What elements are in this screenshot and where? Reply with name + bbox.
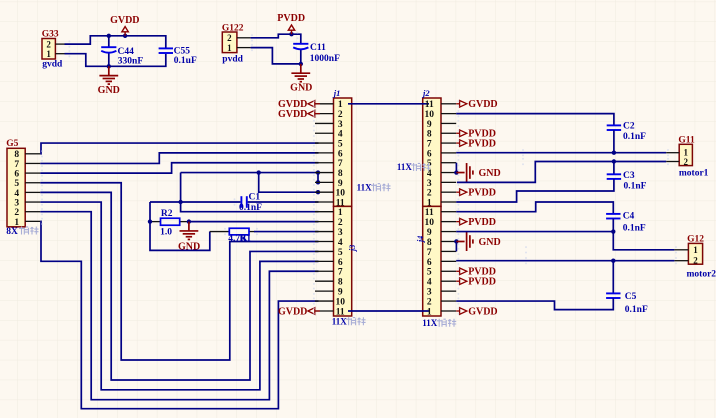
svg-text:1: 1 [427, 198, 432, 208]
svg-text:2: 2 [338, 218, 343, 228]
pin stub J2.9 [441, 122, 456, 124]
svg-text:6: 6 [338, 149, 343, 159]
node J4.9/C4 junction [611, 229, 615, 233]
power port GVDD (J4.1) [456, 308, 467, 315]
node PVDD stub junction [289, 32, 293, 36]
capacitor C4 [606, 214, 620, 219]
pin stub J3.5 [315, 250, 334, 252]
svg-text:0.1nF: 0.1nF [624, 182, 647, 192]
wire G122.2 to PVDD rail [251, 34, 301, 43]
pin stub J2.4 [441, 172, 456, 174]
svg-text:GND: GND [479, 168, 501, 179]
svg-text:2: 2 [338, 110, 343, 120]
node J2.4 junction [454, 170, 458, 174]
wire R2 left loop to R1 [150, 202, 210, 250]
svg-text:j4: j4 [416, 236, 425, 244]
pin stub J3.9 [315, 290, 334, 292]
svg-text:GND: GND [98, 85, 120, 96]
svg-text:7: 7 [427, 139, 432, 149]
power port GVDD (J1.1) [308, 101, 320, 108]
pin stub G12.1 [674, 249, 688, 251]
svg-text:GVDD: GVDD [278, 109, 307, 120]
svg-text:j2: j2 [421, 88, 430, 98]
pin stub J4.5 [441, 270, 456, 272]
pin stub G122.1 [237, 47, 251, 49]
svg-text:PVDD: PVDD [277, 13, 305, 24]
connector body G5 [7, 148, 25, 227]
pin stub J2.10 [441, 113, 456, 115]
svg-text:7: 7 [14, 160, 19, 170]
svg-text:G122: G122 [222, 23, 244, 33]
node 4-way junction at J1.11 row [178, 200, 182, 204]
pin stub J1.2 [315, 113, 334, 115]
connector body J2 [423, 98, 441, 206]
svg-text:1: 1 [693, 245, 698, 255]
svg-text:C55: C55 [174, 46, 191, 56]
svg-text:2: 2 [684, 157, 689, 167]
svg-text:0.1nF: 0.1nF [239, 203, 262, 213]
ground GND under C44 [99, 66, 118, 84]
pin stub G5.3 [25, 201, 40, 203]
pin stub J2.6 [441, 152, 456, 154]
power port PVDD (top middle rail) [288, 25, 294, 34]
power port PVDD (J2.2) [456, 189, 467, 196]
svg-text:1: 1 [338, 208, 343, 218]
svg-text:9: 9 [427, 228, 432, 238]
node C2/G11.1 junction [612, 151, 616, 155]
wire J2.6 to G11.1 [456, 152, 666, 154]
pin stub J4.10 [441, 221, 456, 223]
wire R1 left lead [210, 231, 230, 233]
label insert-pin characters of J4 label [437, 319, 457, 327]
pin stub J3.8 [315, 280, 334, 282]
svg-text:11: 11 [425, 208, 434, 218]
wire R2 left lead [150, 221, 161, 223]
pin stub G5.4 [25, 191, 40, 193]
power port GVDD (J3.11) [308, 308, 320, 315]
svg-text:G11: G11 [678, 136, 695, 146]
node junction J1.8 row [257, 170, 261, 174]
wire J4.6 to G12.2 [456, 260, 674, 262]
ground GND at J4.8 [456, 232, 473, 251]
wire G33.1 to GND rail [65, 54, 166, 67]
wire G5.2 to J3.7 [40, 212, 318, 400]
svg-text:6: 6 [427, 258, 432, 268]
pin stub J1.4 [315, 132, 334, 134]
pin stub G12.2 [674, 260, 688, 262]
pin stub J2.11 [441, 103, 456, 105]
svg-text:1: 1 [46, 49, 51, 59]
pin stub J4.11 [441, 211, 456, 213]
pin stub G11.2 [666, 161, 679, 163]
capacitor C2 [607, 125, 621, 130]
svg-text:11X: 11X [357, 183, 373, 193]
node junction at J1.9 stub [316, 180, 320, 184]
svg-text:10: 10 [335, 297, 345, 307]
svg-text:1: 1 [338, 100, 343, 110]
pin stub J1.9 [315, 181, 334, 183]
svg-text:5: 5 [427, 268, 432, 278]
connector body G12 [688, 243, 702, 264]
svg-text:8X: 8X [6, 227, 18, 237]
wire C5 top lead [612, 261, 614, 294]
pin stub J2.7 [441, 142, 456, 144]
pin stub J2.8 [441, 132, 456, 134]
pin stub J3.11 [315, 310, 334, 312]
power port PVDD (J2.8) [456, 130, 467, 137]
wire G5.3 to J3.6 [40, 202, 318, 390]
pin stub J1.8 [315, 172, 334, 174]
connector body G11 [679, 144, 692, 165]
svg-text:0.1uF: 0.1uF [174, 56, 197, 66]
wire G5.8 to J1.5 [40, 143, 318, 154]
svg-text:PVDD: PVDD [468, 188, 496, 199]
connector body J4 [423, 206, 441, 316]
pin stub G33.1 [55, 53, 64, 55]
node R2 right junction [187, 219, 191, 223]
pin stub J2.2 [441, 191, 456, 193]
pin stub J3.6 [315, 260, 334, 262]
pin stub J1.1 [315, 103, 334, 105]
pin stub J4.3 [441, 290, 456, 292]
pin stub J4.8 [441, 240, 456, 242]
svg-text:G33: G33 [42, 30, 59, 40]
pin stub J1.6 [315, 152, 334, 154]
pin stub G33.2 [55, 43, 64, 45]
svg-text:6: 6 [14, 170, 19, 180]
svg-text:4: 4 [338, 238, 343, 248]
svg-text:9: 9 [427, 120, 432, 130]
power port PVDD (J4.5) [456, 268, 467, 275]
svg-text:C4: C4 [623, 212, 635, 222]
svg-text:GND: GND [290, 82, 312, 93]
svg-text:G12: G12 [687, 235, 704, 245]
svg-text:GND: GND [178, 242, 200, 253]
svg-text:10: 10 [425, 110, 435, 120]
svg-text:5: 5 [14, 179, 19, 189]
svg-text:5: 5 [427, 159, 432, 169]
pin stub J4.6 [441, 260, 456, 262]
svg-text:gvdd: gvdd [42, 60, 63, 70]
svg-text:1: 1 [14, 218, 19, 228]
label insert-pin characters of J3 label [346, 317, 366, 325]
svg-text:2: 2 [46, 39, 51, 49]
node C11/GND junction [299, 62, 303, 66]
wire J4.8 to J4.7 tie [455, 241, 457, 251]
wire G5.5 to J3.4 [40, 183, 318, 360]
ground GND at J2.4 [456, 163, 473, 182]
pin stub J4.7 [441, 250, 456, 252]
pin stub J3.3 [315, 231, 334, 233]
svg-text:3: 3 [338, 120, 343, 130]
pin stub G5.2 [25, 211, 40, 213]
svg-text:3: 3 [427, 288, 432, 298]
capacitor C11 (polarized) [293, 44, 308, 50]
svg-text:7: 7 [338, 268, 343, 278]
wire R1 right lead [249, 231, 255, 233]
resistor R2 [161, 218, 180, 225]
svg-text:0.1nF: 0.1nF [623, 223, 646, 233]
node R2 left junction [148, 219, 152, 223]
svg-text:2: 2 [227, 33, 232, 43]
wire J1.11 row left of C1 [150, 201, 240, 203]
node J4.8 junction [454, 239, 458, 243]
pin stub J1.3 [315, 122, 334, 124]
svg-text:9: 9 [338, 179, 343, 189]
svg-text:10: 10 [335, 189, 345, 199]
resistor R1 [229, 228, 249, 235]
wire C4 bottom to G12.1 [613, 219, 674, 250]
svg-text:6: 6 [427, 149, 432, 159]
svg-text:11X: 11X [332, 316, 348, 326]
node C5 top junction [611, 259, 615, 263]
wire C44 bottom lead [108, 53, 110, 66]
node C3 top junction [612, 159, 616, 163]
wire G33.2 to GVDD rail [65, 36, 166, 48]
svg-text:GVDD: GVDD [468, 99, 497, 110]
svg-text:6: 6 [338, 258, 343, 268]
wire J3.11 to J4.11 crossover [348, 310, 429, 312]
svg-text:GND: GND [479, 237, 501, 248]
svg-text:3: 3 [14, 198, 19, 208]
svg-text:3: 3 [338, 228, 343, 238]
svg-text:C1: C1 [249, 192, 261, 202]
wire G5.6 to J1.7 [40, 163, 318, 173]
capacitor C3 [607, 174, 621, 179]
svg-text:GVDD: GVDD [110, 15, 139, 26]
svg-text:11: 11 [425, 100, 434, 110]
svg-text:R1: R1 [240, 234, 252, 244]
pin stub J4.2 [441, 300, 456, 302]
pin stub G5.8 [25, 153, 40, 155]
wire J2.5 to J2.4 tie [455, 163, 457, 173]
svg-text:8: 8 [14, 150, 19, 160]
svg-text:0.1nF: 0.1nF [625, 305, 648, 315]
wire tie to J1.9 [317, 173, 319, 183]
wire R1 to J3.3 [254, 231, 319, 233]
svg-text:C3: C3 [623, 171, 635, 181]
svg-text:1.0: 1.0 [160, 227, 172, 237]
svg-text:4: 4 [427, 169, 432, 179]
svg-text:j1: j1 [332, 88, 341, 98]
pin stub J1.5 [315, 142, 334, 144]
pin stub J1.7 [315, 162, 334, 164]
wire J4.11 to C4 [456, 202, 613, 214]
svg-text:330nF: 330nF [118, 56, 144, 66]
pin stub J1.11 [315, 201, 334, 203]
svg-text:11X: 11X [422, 318, 438, 328]
wire G122.1 to GND rail [251, 48, 301, 64]
svg-text:3: 3 [427, 179, 432, 189]
svg-text:j3: j3 [348, 245, 357, 253]
svg-text:8: 8 [427, 238, 432, 248]
pin stub G5.5 [25, 182, 40, 184]
svg-text:8: 8 [427, 130, 432, 140]
svg-text:1: 1 [227, 43, 232, 53]
svg-text:2: 2 [14, 208, 19, 218]
svg-text:PVDD: PVDD [468, 138, 496, 149]
wire J1.8 row [181, 172, 318, 174]
wire J1.11 row right of C1 [248, 201, 319, 203]
pin stub J3.7 [315, 270, 334, 272]
svg-text:10: 10 [425, 218, 435, 228]
pin stub G11.1 [666, 152, 679, 154]
node junction at J1.8 stub [316, 170, 320, 174]
svg-text:1: 1 [427, 307, 432, 317]
connector body J1 [334, 98, 352, 206]
pin stub J4.1 [441, 310, 456, 312]
wire C5 bottom to J4.2 [456, 298, 613, 309]
power port GVDD (J1.2) [308, 110, 320, 117]
svg-text:C2: C2 [623, 122, 635, 132]
label insert-pin characters of J2 label [411, 163, 431, 171]
power port GVDD (top left rail) [122, 27, 128, 36]
wire C3 bottom to J2.1 [456, 179, 614, 202]
wire C44 top lead [108, 36, 110, 47]
capacitor C5 [606, 293, 620, 298]
wire G5.4 to J3.5 [40, 192, 318, 380]
connector body G33 [42, 39, 55, 60]
pin stub G5.7 [25, 162, 40, 164]
svg-text:pvdd: pvdd [222, 54, 243, 64]
wire R2 right lead [180, 221, 189, 223]
svg-text:11X: 11X [397, 162, 413, 172]
pin stub G5.1 [25, 220, 40, 222]
wire J1.1 to J2.11 crossover [348, 103, 429, 105]
wire J2.3 to G11.2 [457, 162, 666, 183]
wire tie to J1.10 [259, 173, 318, 193]
node junction at J1.10 stub [316, 190, 320, 194]
svg-text:4: 4 [427, 278, 432, 288]
svg-text:PVDD: PVDD [468, 277, 496, 288]
label insert-pin characters of G5 label [19, 227, 39, 235]
pin stub J4.9 [441, 231, 456, 233]
capacitor C1 [241, 196, 246, 208]
pin stub J2.1 [441, 201, 456, 203]
power port PVDD (J4.10) [456, 218, 467, 225]
svg-text:C11: C11 [310, 43, 326, 53]
svg-text:1000nF: 1000nF [310, 54, 340, 64]
pin stub G122.2 [237, 37, 251, 39]
wire G5.7 to J1.6 [40, 153, 318, 164]
wire C2 bottom lead [613, 130, 615, 153]
svg-text:2: 2 [427, 189, 432, 199]
wire C3 top lead [613, 162, 615, 175]
svg-text:7: 7 [338, 159, 343, 169]
svg-text:G5: G5 [6, 139, 18, 149]
svg-text:R2: R2 [161, 209, 173, 219]
node C44/GND rail junction [107, 64, 111, 68]
svg-text:GVDD: GVDD [468, 306, 497, 317]
wire J2.10 to C2 [456, 114, 614, 126]
svg-text:0.1nF: 0.1nF [623, 132, 646, 142]
wire vertical to J3.1 row [181, 173, 319, 212]
power port GVDD (J2.11) [456, 101, 467, 108]
wire J4.9 row [456, 231, 613, 233]
node GVDD stub junction [123, 34, 127, 38]
svg-text:5: 5 [338, 139, 343, 149]
node C44/GVDD rail junction [107, 34, 111, 38]
wire G5.1 to J3.10 [40, 221, 318, 408]
wire R2 to J3.2 [189, 221, 319, 223]
connector body J3 [334, 206, 352, 316]
svg-text:GVDD: GVDD [278, 306, 307, 317]
svg-text:C5: C5 [625, 292, 637, 302]
power port PVDD (J4.4) [456, 278, 467, 285]
ground GND under R2 [180, 222, 199, 240]
capacitor C55 [159, 48, 173, 53]
pin stub J2.5 [441, 162, 456, 164]
pin stub J2.3 [441, 181, 456, 183]
ground GND under C11 [291, 64, 310, 82]
svg-text:2: 2 [693, 256, 698, 266]
capacitor C44 (polarized) [101, 47, 116, 52]
svg-text:4: 4 [14, 189, 19, 199]
svg-text:5: 5 [338, 248, 343, 258]
pin stub J4.4 [441, 280, 456, 282]
svg-text:4: 4 [338, 130, 343, 140]
connector body G122 [222, 32, 237, 53]
svg-text:8: 8 [338, 169, 343, 179]
pin stub J3.2 [315, 221, 334, 223]
svg-text:2: 2 [427, 297, 432, 307]
pin stub J3.4 [315, 240, 334, 242]
svg-text:9: 9 [338, 288, 343, 298]
svg-text:PVDD: PVDD [468, 217, 496, 228]
pin stub J3.1 [315, 211, 334, 213]
label insert-pin characters of J1 label [371, 183, 391, 191]
pin stub J1.10 [315, 191, 334, 193]
svg-text:7: 7 [427, 248, 432, 258]
power port PVDD (J2.7) [456, 140, 467, 147]
svg-text:motor2: motor2 [687, 270, 716, 280]
pin stub G5.6 [25, 172, 40, 174]
svg-text:8: 8 [338, 278, 343, 288]
pin stub J3.10 [315, 300, 334, 302]
svg-text:motor1: motor1 [679, 168, 709, 178]
svg-text:11: 11 [336, 198, 345, 208]
